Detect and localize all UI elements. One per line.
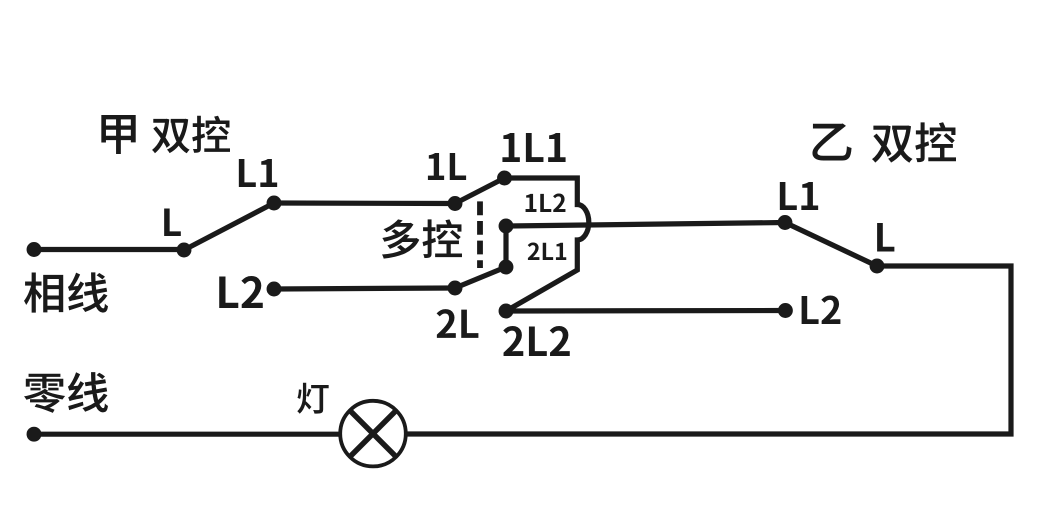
switch blade 多控 pole2 (2L to 2L1)	[455, 267, 506, 288]
label pin 甲 L	[164, 208, 181, 236]
label pin 甲 L1	[239, 159, 277, 187]
node 多控 1L2	[499, 219, 514, 234]
label title 双控 (two-way) A	[152, 116, 230, 154]
label pin 乙 L2	[802, 295, 841, 324]
label pin 多控 2L1	[528, 242, 567, 260]
switch blade 甲 (L to L1)	[184, 203, 274, 250]
label title 多控 (multi-control)	[382, 219, 462, 258]
node 甲 L1	[267, 196, 282, 211]
label pin 多控 1L1	[502, 133, 565, 162]
node 乙 L1	[778, 215, 793, 230]
node neutral terminal 零线	[27, 427, 42, 442]
label pin 甲 L2	[219, 276, 263, 308]
lamp 灯 symbol (circle with X)	[340, 401, 406, 467]
node 多控 1L	[448, 196, 463, 211]
node 多控 1L1	[497, 171, 512, 186]
dashed mechanical link of 多控 switch	[477, 201, 483, 268]
node 乙 L2	[778, 303, 793, 318]
label pin 多控 1L2	[526, 193, 566, 212]
node 甲 L2	[267, 282, 282, 297]
node 多控 2L	[448, 281, 463, 296]
wire 1L2 to 乙L1	[506, 223, 785, 227]
label title 双控 (two-way) B	[872, 122, 956, 162]
switch blade 多控 pole1 (1L to 1L1)	[455, 178, 505, 204]
node 乙 L	[870, 259, 885, 274]
wire 甲L1 to 多控 1L	[274, 200, 455, 206]
wire live 相线 to switch甲 L	[34, 247, 184, 252]
label title 乙 (switch B)	[812, 123, 851, 160]
label pin 乙 L1	[780, 182, 818, 210]
node 多控 2L2	[499, 304, 514, 319]
label net 零线 (neutral wire)	[24, 372, 108, 413]
node 多控 2L1	[499, 260, 514, 275]
wire 2L2 to 乙L2	[506, 308, 785, 314]
node live terminal 相线	[27, 242, 42, 257]
switch blade 乙 (L1 to L)	[785, 223, 877, 267]
label title 甲 (switch A)	[101, 115, 135, 154]
label pin 乙 L	[877, 223, 894, 252]
wire 多控 internal 1L1 to 2L2 (with hop over 1L2 wire)	[505, 178, 589, 311]
label pin 多控 2L	[437, 309, 479, 338]
wire lamp to neutral 零线	[34, 432, 340, 437]
label label 灯 (lamp)	[297, 383, 328, 414]
label pin 多控 1L	[428, 153, 466, 180]
label pin 多控 2L2	[503, 326, 570, 356]
label net 相线 (live wire)	[24, 272, 108, 312]
wire 乙L to lamp (right loop)	[406, 266, 1011, 434]
node 甲 L	[177, 243, 192, 258]
wire 多控 internal 1L2 to 2L1	[503, 226, 508, 267]
wire 甲L2 to 多控 2L	[274, 288, 455, 289]
